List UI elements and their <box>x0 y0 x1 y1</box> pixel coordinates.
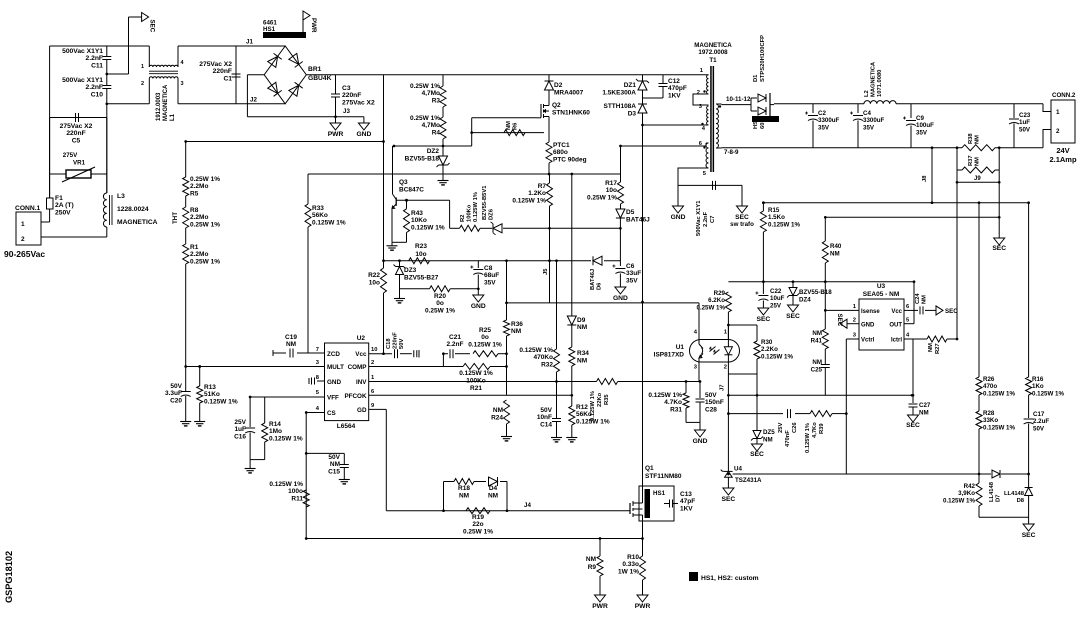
svg-text:C3: C3 <box>342 85 351 92</box>
svg-text:R34: R34 <box>577 350 589 357</box>
svg-text:2.2Ko: 2.2Ko <box>761 346 778 353</box>
bridge BR1 GBU4K diamond <box>264 46 306 104</box>
svg-text:2.2nF: 2.2nF <box>86 55 103 62</box>
svg-text:1Ko: 1Ko <box>1032 383 1044 390</box>
wire R33 column <box>307 174 309 204</box>
wire C21 line <box>443 353 448 355</box>
svg-text:1228.0024: 1228.0024 <box>117 206 149 213</box>
svg-text:0o: 0o <box>481 334 489 341</box>
svg-text:J9: J9 <box>974 176 981 182</box>
svg-text:HS2: HS2 <box>753 118 759 129</box>
svg-text:C24: C24 <box>915 293 921 304</box>
svg-text:0.25W 1%: 0.25W 1% <box>587 194 617 201</box>
capacitor C23 <box>1013 104 1015 118</box>
wire C16/R14 bottom <box>250 459 265 461</box>
svg-text:10o: 10o <box>415 251 426 258</box>
svg-text:R14: R14 <box>269 421 281 428</box>
svg-text:HS1: HS1 <box>263 26 276 33</box>
svg-text:0.125W 1%: 0.125W 1% <box>512 197 546 204</box>
svg-text:7-8-9: 7-8-9 <box>724 149 739 156</box>
wire opto pin2 down <box>727 362 729 471</box>
svg-text:C7: C7 <box>710 216 716 223</box>
resistor R17 <box>620 146 622 182</box>
svg-text:50V: 50V <box>399 339 405 349</box>
svg-text:NM: NM <box>763 437 773 444</box>
svg-text:R3: R3 <box>432 97 441 104</box>
svg-text:C22: C22 <box>770 288 782 295</box>
wire x913 drop <box>912 339 914 395</box>
wire Vcc pin10 line <box>369 353 392 355</box>
capacitor C3 <box>335 75 337 94</box>
wire C26 line <box>728 413 783 415</box>
svg-text:GND: GND <box>613 295 628 302</box>
svg-text:BZV55-B5V1: BZV55-B5V1 <box>482 185 488 220</box>
resistor R21 <box>463 364 490 370</box>
capacitor C16 <box>245 427 255 429</box>
wire x471.7 gate links <box>471 118 473 146</box>
svg-text:25V: 25V <box>778 423 784 433</box>
svg-text:ISP817XD: ISP817XD <box>654 352 685 359</box>
wire pin5 line <box>678 168 709 206</box>
svg-text:sw trafo: sw trafo <box>730 221 754 228</box>
resistor R4 <box>440 117 446 139</box>
wire gate line y510.7 <box>386 510 628 512</box>
svg-text:R38: R38 <box>968 133 974 144</box>
svg-text:C4: C4 <box>863 110 871 117</box>
capacitor C21 <box>449 349 451 358</box>
svg-text:L2: L2 <box>864 90 870 97</box>
svg-text:SEA05 - NM: SEA05 - NM <box>863 291 899 298</box>
wire Q1 source <box>642 515 644 539</box>
svg-text:R41: R41 <box>811 338 823 345</box>
wire x106.8 down to L3 <box>106 104 108 193</box>
svg-text:Q2: Q2 <box>552 102 561 109</box>
svg-text:R33: R33 <box>312 205 324 212</box>
svg-text:MAGNETICA: MAGNETICA <box>694 42 732 49</box>
svg-text:NM: NM <box>975 157 981 166</box>
resistor R38 <box>962 145 995 151</box>
wire R16-C17 <box>1028 395 1030 418</box>
svg-text:4,7Mo: 4,7Mo <box>422 122 440 129</box>
svg-text:C25: C25 <box>811 367 823 374</box>
svg-text:470o: 470o <box>983 383 997 390</box>
svg-text:C17: C17 <box>1033 411 1045 418</box>
svg-text:C18: C18 <box>386 338 392 349</box>
svg-text:NM: NM <box>286 341 296 348</box>
diode D7 LL4148 <box>992 470 1000 478</box>
ground DZ2 <box>442 165 444 177</box>
svg-text:STPS20H100CFP: STPS20H100CFP <box>760 35 766 82</box>
wire output - rail <box>722 147 963 149</box>
diode D9 NM <box>567 316 576 325</box>
ground Q3 <box>392 241 407 243</box>
svg-text:PWR: PWR <box>328 131 344 138</box>
svg-text:NM: NM <box>830 251 840 258</box>
wire INV line <box>369 381 593 383</box>
svg-text:470nF: 470nF <box>785 430 791 447</box>
wire D5-C6 <box>619 228 621 266</box>
wire R34-R12 <box>571 366 573 406</box>
svg-text:C27: C27 <box>919 402 931 409</box>
svg-text:2.2nF: 2.2nF <box>703 211 709 227</box>
IC U3 SEA05 box <box>859 299 904 350</box>
svg-text:LL4148: LL4148 <box>989 481 995 502</box>
svg-text:Isense: Isense <box>861 309 880 315</box>
wire Q3 base line <box>396 199 449 201</box>
svg-text:R29: R29 <box>714 290 726 297</box>
svg-text:D8: D8 <box>1017 498 1025 504</box>
svg-text:1071.0080: 1071.0080 <box>877 70 883 97</box>
inductor L1 core <box>149 70 178 72</box>
net SEC DZ4 <box>788 305 799 312</box>
resistor R2 <box>460 225 480 231</box>
T1 primary winding lower <box>707 106 709 125</box>
ground C16 <box>249 465 251 469</box>
wire y103.8 to bridge <box>178 103 285 105</box>
svg-text:0.125W 1%: 0.125W 1% <box>269 435 303 442</box>
resistor R7 <box>549 174 551 183</box>
svg-text:0.125W 1%: 0.125W 1% <box>1032 390 1064 397</box>
wire VR1 line <box>50 173 66 175</box>
capacitor C27 <box>912 395 914 403</box>
svg-text:MRA4007: MRA4007 <box>554 90 584 97</box>
svg-text:MAGNETICA: MAGNETICA <box>163 84 169 121</box>
node SEC tap wire <box>107 73 129 75</box>
svg-text:Vcc: Vcc <box>891 309 902 315</box>
svg-text:0.125W 1%: 0.125W 1% <box>983 390 1015 397</box>
wire y103.8 left segment <box>107 103 150 105</box>
svg-text:GND: GND <box>356 131 371 138</box>
svg-text:R35: R35 <box>604 394 610 405</box>
svg-text:U2: U2 <box>357 335 366 342</box>
svg-text:R2: R2 <box>460 215 466 222</box>
svg-text:220nF: 220nF <box>66 130 85 137</box>
wire D9-R34 <box>571 325 573 347</box>
svg-text:10uF: 10uF <box>770 295 785 302</box>
svg-text:100o: 100o <box>288 488 303 495</box>
svg-text:GND: GND <box>861 323 875 329</box>
svg-text:T1: T1 <box>709 57 717 64</box>
net PWR R10 <box>637 595 648 602</box>
svg-text:R4: R4 <box>432 129 441 136</box>
svg-text:C5: C5 <box>72 137 81 144</box>
svg-text:D2: D2 <box>554 82 563 89</box>
svg-text:35V: 35V <box>916 129 928 136</box>
bridge diode top-right <box>289 53 299 64</box>
resistor R11 <box>303 490 309 507</box>
ground R12 <box>571 425 573 434</box>
svg-text:0.125W 1%: 0.125W 1% <box>761 353 793 360</box>
svg-text:220nF: 220nF <box>342 92 361 99</box>
svg-text:0.25W 1%: 0.25W 1% <box>190 221 220 228</box>
svg-text:SEC: SEC <box>1022 532 1036 539</box>
svg-text:STTH108A: STTH108A <box>603 103 636 110</box>
wire clamp to pin4 <box>643 124 707 126</box>
wire Isense <box>825 309 859 311</box>
svg-text:3300uF: 3300uF <box>818 117 840 124</box>
capacitor pin8 stub <box>317 380 325 382</box>
svg-text:68uF: 68uF <box>484 272 499 279</box>
svg-text:275Vac X2: 275Vac X2 <box>60 123 93 130</box>
svg-text:Vctrl: Vctrl <box>861 338 875 344</box>
wire R4 bottom <box>442 139 444 156</box>
thermistor PTC1 <box>548 121 550 142</box>
zener DZ1 1.5KE300A <box>642 75 644 81</box>
wire R8-R1 <box>185 228 187 244</box>
ground C20 <box>185 418 187 422</box>
svg-text:C6: C6 <box>626 263 635 270</box>
bridge diode bottom-left <box>268 82 278 93</box>
svg-text:0.25W 1%: 0.25W 1% <box>190 258 220 265</box>
net GND pin5 <box>673 206 684 213</box>
net SEC sw trafo <box>737 206 748 213</box>
wire GD line <box>369 408 387 410</box>
resistor R9 <box>599 539 601 557</box>
wire pin6 line <box>621 145 707 147</box>
resistor R34 <box>569 347 575 366</box>
svg-text:BC847C: BC847C <box>399 187 424 194</box>
net SEC DZ5 <box>752 444 763 451</box>
svg-text:0.25W 1%: 0.25W 1% <box>696 304 725 311</box>
svg-text:2A (T): 2A (T) <box>55 202 74 209</box>
net GND C6 <box>615 287 626 294</box>
svg-text:NM: NM <box>928 343 934 352</box>
resistor R39 <box>810 411 832 417</box>
resistor R28 <box>976 411 982 429</box>
svg-text:TSZ431A: TSZ431A <box>735 477 762 484</box>
heatsink HS1 box <box>639 486 674 521</box>
svg-text:4,7Mo: 4,7Mo <box>422 90 440 97</box>
svg-text:1uF: 1uF <box>234 426 246 433</box>
svg-text:4,7Ko: 4,7Ko <box>812 422 818 438</box>
svg-text:0.125W 1%: 0.125W 1% <box>411 224 445 231</box>
svg-text:SEC: SEC <box>906 422 920 429</box>
fuse F1 <box>49 174 51 198</box>
svg-text:R1: R1 <box>190 244 199 251</box>
wire rail y281.7 <box>728 281 914 283</box>
svg-text:3,9Ko: 3,9Ko <box>958 490 975 497</box>
resistor R25 <box>473 351 498 357</box>
svg-text:NM: NM <box>506 121 512 130</box>
svg-text:22Ko: 22Ko <box>597 392 603 407</box>
zener DZ2 <box>439 156 448 165</box>
svg-text:BZV55-B27: BZV55-B27 <box>404 275 439 282</box>
capacitor C7 line <box>678 184 742 186</box>
resistor R35 <box>597 379 618 385</box>
svg-text:500Vac X1Y1: 500Vac X1Y1 <box>62 48 103 55</box>
resistor R12 <box>569 406 575 425</box>
svg-text:PWR: PWR <box>635 603 651 610</box>
wire Vctrl <box>846 338 859 340</box>
svg-text:R30: R30 <box>761 339 773 346</box>
wire R35 line <box>593 381 597 383</box>
wire Ictrl line <box>904 338 927 340</box>
svg-text:R13: R13 <box>204 384 216 391</box>
svg-text:R37: R37 <box>968 155 974 166</box>
wire R37 branch <box>956 148 958 183</box>
svg-text:GND: GND <box>327 379 341 386</box>
svg-text:PTC 90deg: PTC 90deg <box>553 156 587 163</box>
svg-text:10o: 10o <box>606 187 617 194</box>
svg-text:L6564: L6564 <box>337 423 356 430</box>
svg-text:J5: J5 <box>543 268 549 275</box>
svg-text:3.3uF: 3.3uF <box>165 390 182 397</box>
svg-text:51Ko: 51Ko <box>204 391 220 398</box>
svg-text:6.2Ko: 6.2Ko <box>708 297 725 304</box>
T1 secondary winding <box>716 104 718 148</box>
svg-text:SEC: SEC <box>750 451 764 458</box>
svg-text:250V: 250V <box>55 209 71 216</box>
svg-text:R21: R21 <box>470 385 482 392</box>
svg-text:DZ4: DZ4 <box>799 297 811 304</box>
svg-text:GND: GND <box>471 303 486 310</box>
net SEC U4 <box>723 488 734 495</box>
wire x383 column <box>383 75 385 268</box>
svg-text:C10: C10 <box>91 91 104 98</box>
svg-text:0.125W 1%: 0.125W 1% <box>590 391 596 421</box>
svg-text:1W 1%: 1W 1% <box>618 568 639 575</box>
svg-text:0.25W 1%: 0.25W 1% <box>410 83 440 90</box>
svg-text:R26: R26 <box>983 376 995 383</box>
svg-text:GD: GD <box>357 407 367 414</box>
capacitor C14 <box>552 418 561 420</box>
wire drain column <box>642 125 644 503</box>
svg-text:CONN.2: CONN.2 <box>1052 92 1076 99</box>
svg-text:Q3: Q3 <box>399 179 408 186</box>
svg-text:0o: 0o <box>436 300 444 307</box>
capacitor C10 <box>102 85 111 87</box>
ground C15 <box>343 476 345 480</box>
svg-text:PFCOK: PFCOK <box>344 393 366 400</box>
svg-text:SEC: SEC <box>786 313 800 320</box>
svg-text:10o: 10o <box>369 280 380 287</box>
wire y146 line <box>394 145 472 147</box>
wire R33 down <box>307 227 309 353</box>
diode D4 NM <box>489 477 498 486</box>
ground R24 <box>506 433 508 437</box>
svg-text:1.2Ko: 1.2Ko <box>528 190 546 197</box>
svg-text:R43: R43 <box>411 210 423 217</box>
resistor R14 <box>264 397 266 423</box>
svg-text:U3: U3 <box>877 283 886 290</box>
svg-text:0.25W 1%: 0.25W 1% <box>190 176 220 183</box>
resistor R42 <box>976 483 982 506</box>
svg-text:470Ko: 470Ko <box>533 354 553 361</box>
wire R32 column <box>556 261 558 349</box>
net SEC J9 <box>994 238 1005 245</box>
svg-text:50V: 50V <box>1019 126 1031 133</box>
wire L3 down <box>106 227 108 237</box>
svg-text:SEC: SEC <box>757 316 771 323</box>
svg-text:D7: D7 <box>996 495 1002 502</box>
svg-text:220nF: 220nF <box>393 332 399 349</box>
shunt reference U4 TSZ431A <box>724 470 733 472</box>
wire bridge minus <box>247 74 264 76</box>
svg-text:0.25W 1%: 0.25W 1% <box>463 528 493 535</box>
wire D6 line y261 <box>557 260 592 262</box>
svg-text:0.125W 1%: 0.125W 1% <box>648 392 682 399</box>
capacitor C22 <box>758 295 768 297</box>
svg-text:F1: F1 <box>55 195 63 202</box>
svg-text:R17: R17 <box>605 180 617 187</box>
svg-text:1912.0003: 1912.0003 <box>156 92 162 121</box>
svg-text:R23: R23 <box>415 243 427 250</box>
svg-text:2: 2 <box>853 318 856 324</box>
wire left column x49.6 <box>49 46 51 198</box>
svg-text:1uF: 1uF <box>1019 119 1030 126</box>
svg-text:D5: D5 <box>626 209 635 216</box>
svg-text:BZV55-B18: BZV55-B18 <box>799 289 832 296</box>
resistor R40 <box>824 217 826 241</box>
svg-text:2: 2 <box>724 365 727 371</box>
svg-text:R25: R25 <box>479 327 491 334</box>
wire R7 down <box>549 206 551 303</box>
wire C15 branch <box>306 452 344 454</box>
wire R2 DZ6 line <box>450 227 460 229</box>
svg-text:35V: 35V <box>484 279 496 286</box>
wire R6 line <box>472 132 544 134</box>
capacitor C7 <box>712 181 714 190</box>
transformer T1 core <box>710 66 712 172</box>
svg-text:90-265Vac: 90-265Vac <box>4 249 45 259</box>
diode D8 LL4148 <box>1025 488 1033 496</box>
svg-text:R39: R39 <box>819 423 825 434</box>
resistor R8 <box>183 207 189 228</box>
svg-text:275V: 275V <box>63 152 78 159</box>
resistor R19 <box>466 508 490 514</box>
resistor R27 <box>927 336 947 342</box>
svg-text:D9: D9 <box>577 317 586 324</box>
svg-text:1KV: 1KV <box>680 505 693 512</box>
capacitor C13 <box>664 503 670 505</box>
svg-text:GSPG18102: GSPG18102 <box>4 551 14 603</box>
svg-text:0.125W 1%: 0.125W 1% <box>312 219 346 226</box>
svg-text:DZ3: DZ3 <box>404 267 417 274</box>
wire THT top <box>186 141 384 143</box>
wire R33 top line <box>308 173 394 175</box>
svg-text:J1: J1 <box>246 39 253 46</box>
svg-text:0.125W 1%: 0.125W 1% <box>459 370 493 377</box>
wire MULT line <box>186 366 325 368</box>
svg-text:SEC: SEC <box>945 308 958 315</box>
net PWR R9 <box>595 595 606 602</box>
diode D1 STPS20H100CFP <box>722 104 752 106</box>
svg-text:VR1: VR1 <box>73 160 86 167</box>
wire ZCD line <box>273 352 286 354</box>
wire feedback line y474 <box>733 473 991 475</box>
capacitor C2 <box>812 104 814 113</box>
inductor L1 winding bottom <box>149 77 178 79</box>
svg-text:0.125W 1%: 0.125W 1% <box>943 497 975 504</box>
svg-text:MULT: MULT <box>327 364 344 371</box>
svg-text:R36: R36 <box>511 321 523 328</box>
resistor R30 <box>756 325 758 341</box>
T1 winding jog <box>693 94 709 105</box>
svg-text:0.25W 1%: 0.25W 1% <box>410 115 440 122</box>
svg-text:35V: 35V <box>863 124 875 131</box>
ground DZ3 <box>399 275 401 295</box>
svg-text:THT: THT <box>172 212 179 224</box>
svg-text:NM: NM <box>812 330 822 337</box>
svg-text:L3: L3 <box>117 193 125 200</box>
svg-text:R32: R32 <box>541 361 553 368</box>
resistor R29 <box>725 292 731 312</box>
net GND bridge <box>363 117 365 123</box>
capacitor C28 <box>699 382 701 399</box>
wire R28 down <box>978 429 980 483</box>
net SEC U3 GND <box>840 319 847 328</box>
svg-text:NM: NM <box>459 493 469 500</box>
